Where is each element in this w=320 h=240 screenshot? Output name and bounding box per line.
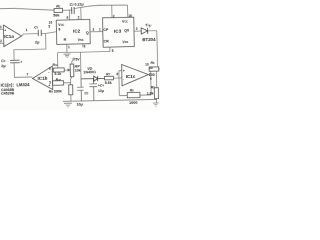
svg-text:5.6k: 5.6k bbox=[105, 81, 112, 85]
capacitor C2 bbox=[69, 2, 83, 14]
capacitor C1 bbox=[34, 25, 41, 44]
svg-text:1N4001: 1N4001 bbox=[83, 70, 96, 74]
svg-text:C3: C3 bbox=[1, 59, 6, 63]
IC IC2 bbox=[56, 19, 90, 44]
svg-text:-: - bbox=[123, 78, 124, 82]
potentiometer RP bbox=[70, 64, 81, 77]
svg-text:IC1c: IC1c bbox=[126, 74, 136, 79]
svg-text:16: 16 bbox=[128, 14, 132, 18]
svg-text:8: 8 bbox=[58, 27, 60, 31]
svg-text:100: 100 bbox=[149, 73, 155, 77]
svg-text:IC1a: IC1a bbox=[4, 34, 14, 39]
svg-text:1: 1 bbox=[68, 45, 70, 49]
wire node A feedback branch bbox=[14, 34, 47, 61]
resistor R10 bbox=[52, 78, 63, 86]
svg-text:R7: R7 bbox=[106, 73, 111, 77]
svg-text:C1: C1 bbox=[34, 25, 39, 29]
svg-text:R1: R1 bbox=[56, 5, 61, 9]
svg-text:VSS: VSS bbox=[78, 38, 84, 42]
svg-text:R: R bbox=[64, 38, 67, 42]
svg-text:10μ: 10μ bbox=[76, 103, 82, 107]
resistor R11 bbox=[52, 63, 64, 76]
svg-text:5: 5 bbox=[49, 81, 51, 85]
svg-text:3: 3 bbox=[92, 27, 94, 31]
wire IC1a output bbox=[21, 28, 38, 36]
ground symbol bbox=[64, 103, 72, 107]
wire R10 to pot bottom junction bbox=[63, 77, 72, 85]
svg-text:10μ: 10μ bbox=[98, 89, 104, 93]
5V supply terminal bbox=[72, 57, 81, 64]
svg-text:Q0: Q0 bbox=[124, 29, 129, 33]
wire top supply rail left bbox=[0, 8, 54, 12]
svg-text:5: 5 bbox=[48, 25, 50, 29]
LED BT204 bbox=[141, 24, 156, 43]
svg-text:6: 6 bbox=[49, 67, 51, 71]
capacitor C3 bbox=[1, 59, 22, 69]
svg-text:BT204: BT204 bbox=[142, 37, 156, 42]
op-amp IC1a bbox=[0, 25, 22, 47]
svg-text:CR: CR bbox=[104, 39, 110, 43]
svg-text:2: 2 bbox=[0, 39, 2, 43]
svg-text:IC3: IC3 bbox=[114, 29, 122, 34]
svg-text:+: + bbox=[123, 69, 125, 73]
svg-text:1.8k: 1.8k bbox=[147, 91, 154, 95]
resistor R6 bbox=[145, 61, 160, 77]
wire R1 to C2 bbox=[63, 9, 72, 11]
svg-text:10: 10 bbox=[149, 66, 153, 70]
svg-text:CP: CP bbox=[103, 28, 109, 32]
wire IC3 top pin drops bbox=[112, 5, 132, 18]
op-amp IC1c bbox=[122, 64, 149, 86]
diode VD 1N4001 bbox=[81, 66, 105, 81]
svg-text:8: 8 bbox=[84, 45, 86, 49]
wire IC2 top pin drops bbox=[66, 8, 81, 20]
wire IC2 bottom pins bbox=[63, 44, 86, 58]
svg-text:2μ: 2μ bbox=[35, 40, 40, 44]
svg-text:2: 2 bbox=[78, 16, 80, 20]
wire IC1b input stubs bbox=[49, 67, 54, 85]
svg-text:VCC: VCC bbox=[122, 20, 128, 24]
svg-text:1: 1 bbox=[26, 28, 28, 32]
svg-text:3: 3 bbox=[136, 27, 138, 31]
svg-text:56k: 56k bbox=[53, 14, 60, 18]
svg-text:+: + bbox=[4, 28, 6, 32]
wire IC1a input leads bbox=[0, 29, 4, 43]
svg-text:6: 6 bbox=[66, 16, 68, 20]
wire ground net bbox=[57, 47, 114, 79]
op-amp IC1b bbox=[32, 66, 52, 90]
wire Q0 output bbox=[134, 27, 141, 31]
wire C3 to IC1b output bbox=[14, 63, 32, 78]
ground rail bbox=[63, 99, 157, 101]
parts list text bbox=[1, 82, 31, 96]
svg-text:IC1(c)：LM324: IC1(c)：LM324 bbox=[1, 82, 31, 88]
svg-text:0.22μ: 0.22μ bbox=[74, 2, 83, 6]
svg-text:R9 330k: R9 330k bbox=[49, 89, 62, 93]
svg-text:2μ: 2μ bbox=[1, 64, 6, 68]
wire IC2 Q to IC3 CP bbox=[90, 27, 103, 31]
svg-text:VSS: VSS bbox=[122, 40, 128, 44]
svg-text:1: 1 bbox=[99, 27, 101, 31]
svg-text:10: 10 bbox=[145, 63, 149, 67]
svg-text:-: - bbox=[5, 43, 6, 47]
IC IC3 bbox=[103, 17, 135, 47]
capacitor C5 bbox=[76, 79, 89, 107]
svg-text:IC1b: IC1b bbox=[37, 75, 47, 80]
wire output feedback drop bbox=[150, 71, 152, 95]
wire LED cathode drop bbox=[148, 31, 158, 67]
resistor R1 bbox=[53, 5, 63, 18]
svg-text:C4520B: C4520B bbox=[1, 91, 15, 95]
wire top rail right bbox=[74, 5, 127, 9]
svg-text:5.1k: 5.1k bbox=[54, 72, 61, 76]
svg-text:2: 2 bbox=[113, 14, 115, 18]
svg-text:+: + bbox=[20, 60, 22, 64]
svg-text:R10: R10 bbox=[55, 78, 61, 82]
resistor R7 bbox=[104, 73, 113, 85]
ground symbol right bbox=[153, 99, 159, 107]
svg-text:+C4: +C4 bbox=[98, 83, 105, 87]
resistor R5 1.8k bbox=[146, 71, 158, 99]
svg-text:8: 8 bbox=[116, 72, 118, 76]
svg-text:8: 8 bbox=[112, 49, 114, 53]
capacitor C4 bbox=[89, 78, 104, 100]
svg-text:10k: 10k bbox=[75, 68, 81, 72]
svg-text:Q: Q bbox=[86, 31, 89, 35]
resistor R8 feedback bbox=[119, 88, 151, 105]
potentiometer RP wiper bbox=[64, 69, 70, 71]
svg-text:VCC: VCC bbox=[58, 23, 64, 27]
svg-text:1000: 1000 bbox=[129, 101, 138, 105]
resistor R9 bbox=[49, 85, 73, 102]
wire IC1c output bbox=[148, 66, 153, 81]
svg-text:7: 7 bbox=[26, 73, 28, 77]
wire R7 to IC1c inputs bbox=[113, 71, 122, 96]
svg-text:IC2: IC2 bbox=[73, 29, 81, 34]
wire node A to IC2 input bbox=[41, 21, 57, 34]
